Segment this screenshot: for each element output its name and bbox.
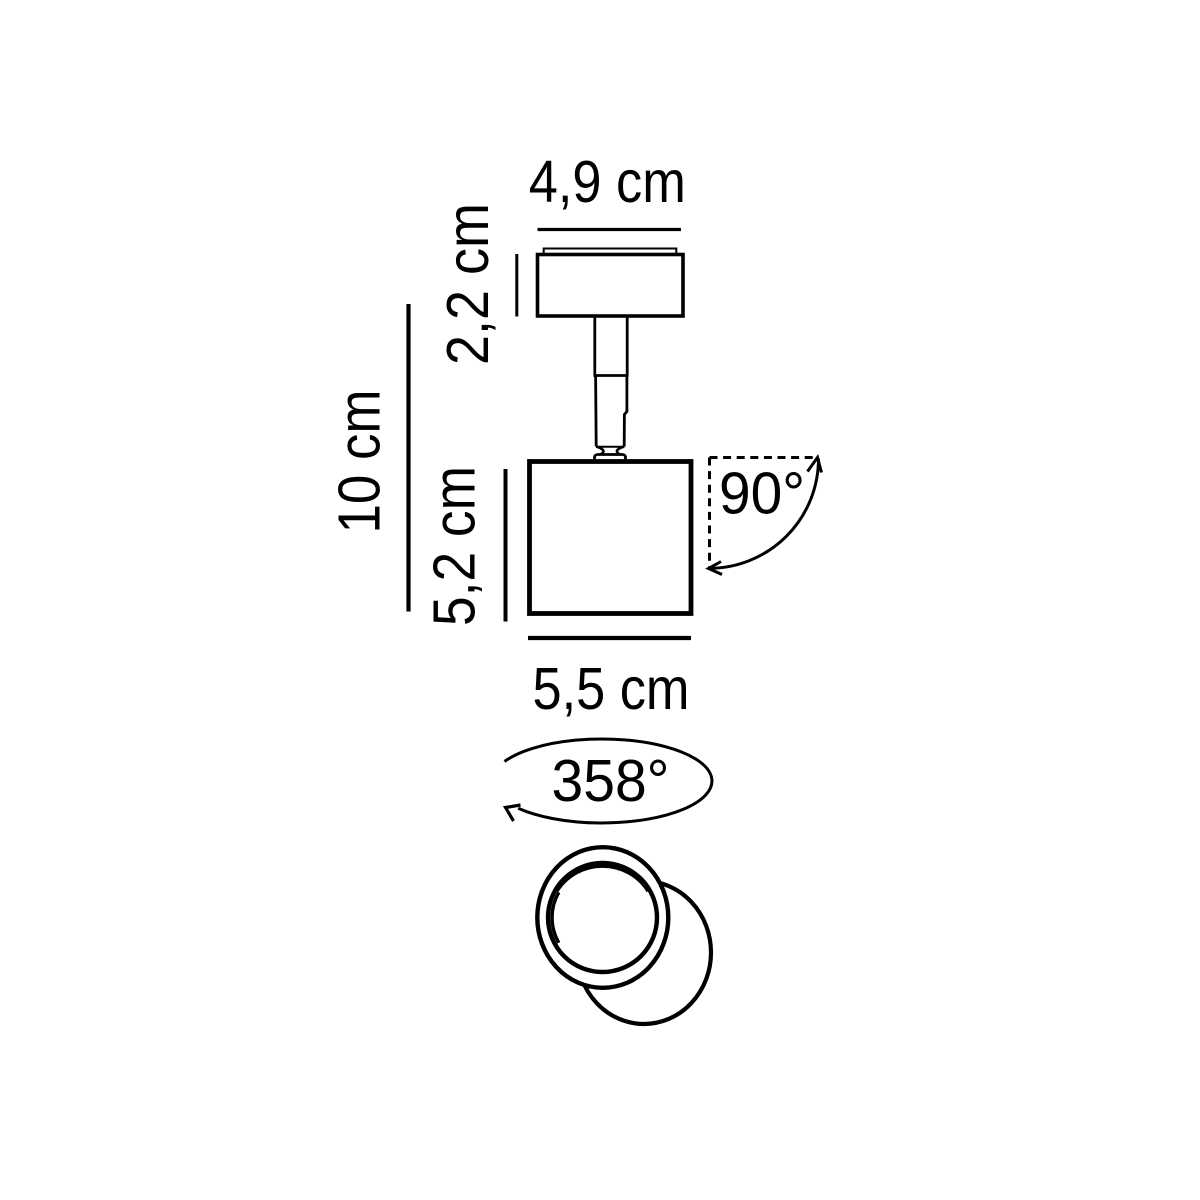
inner detail arc top [557,866,648,891]
arrowhead left [709,562,723,575]
svg-text:5,5 cm: 5,5 cm [533,656,690,722]
cylinder back body [577,881,711,1024]
svg-text:10 cm: 10 cm [327,390,393,534]
svg-text:358°: 358° [552,748,670,814]
dimension line 5,2 cm [504,469,508,622]
cylinder front rim [537,847,668,988]
svg-text:5,2 cm: 5,2 cm [422,466,488,626]
dimension line 2,2 cm [515,254,518,317]
lamp head body [530,462,692,614]
dashed reference line horizontal [710,456,816,459]
stem neck joint [596,447,603,456]
dashed reference line vertical [708,458,711,568]
dimension line 5,5 cm [528,636,691,640]
inner detail arc left [552,892,559,943]
358 degree rotation ellipse [505,739,712,823]
stem lower segment [594,376,597,447]
stem flange [595,455,626,462]
arrowhead up [808,458,822,473]
svg-text:4,9 cm: 4,9 cm [529,149,686,215]
canopy body [538,255,684,317]
svg-text:90°: 90° [719,461,805,527]
dimension line 4,9 cm [538,228,682,231]
stem upper segment [593,316,596,376]
svg-text:2,2 cm: 2,2 cm [435,203,501,365]
dimension line 10 cm [406,304,410,612]
stem divider [594,374,629,377]
90 degree swing arc [710,459,819,569]
cylinder inner opening [548,863,657,972]
canopy top plate [544,249,677,255]
arrowhead ellipse [506,805,521,821]
